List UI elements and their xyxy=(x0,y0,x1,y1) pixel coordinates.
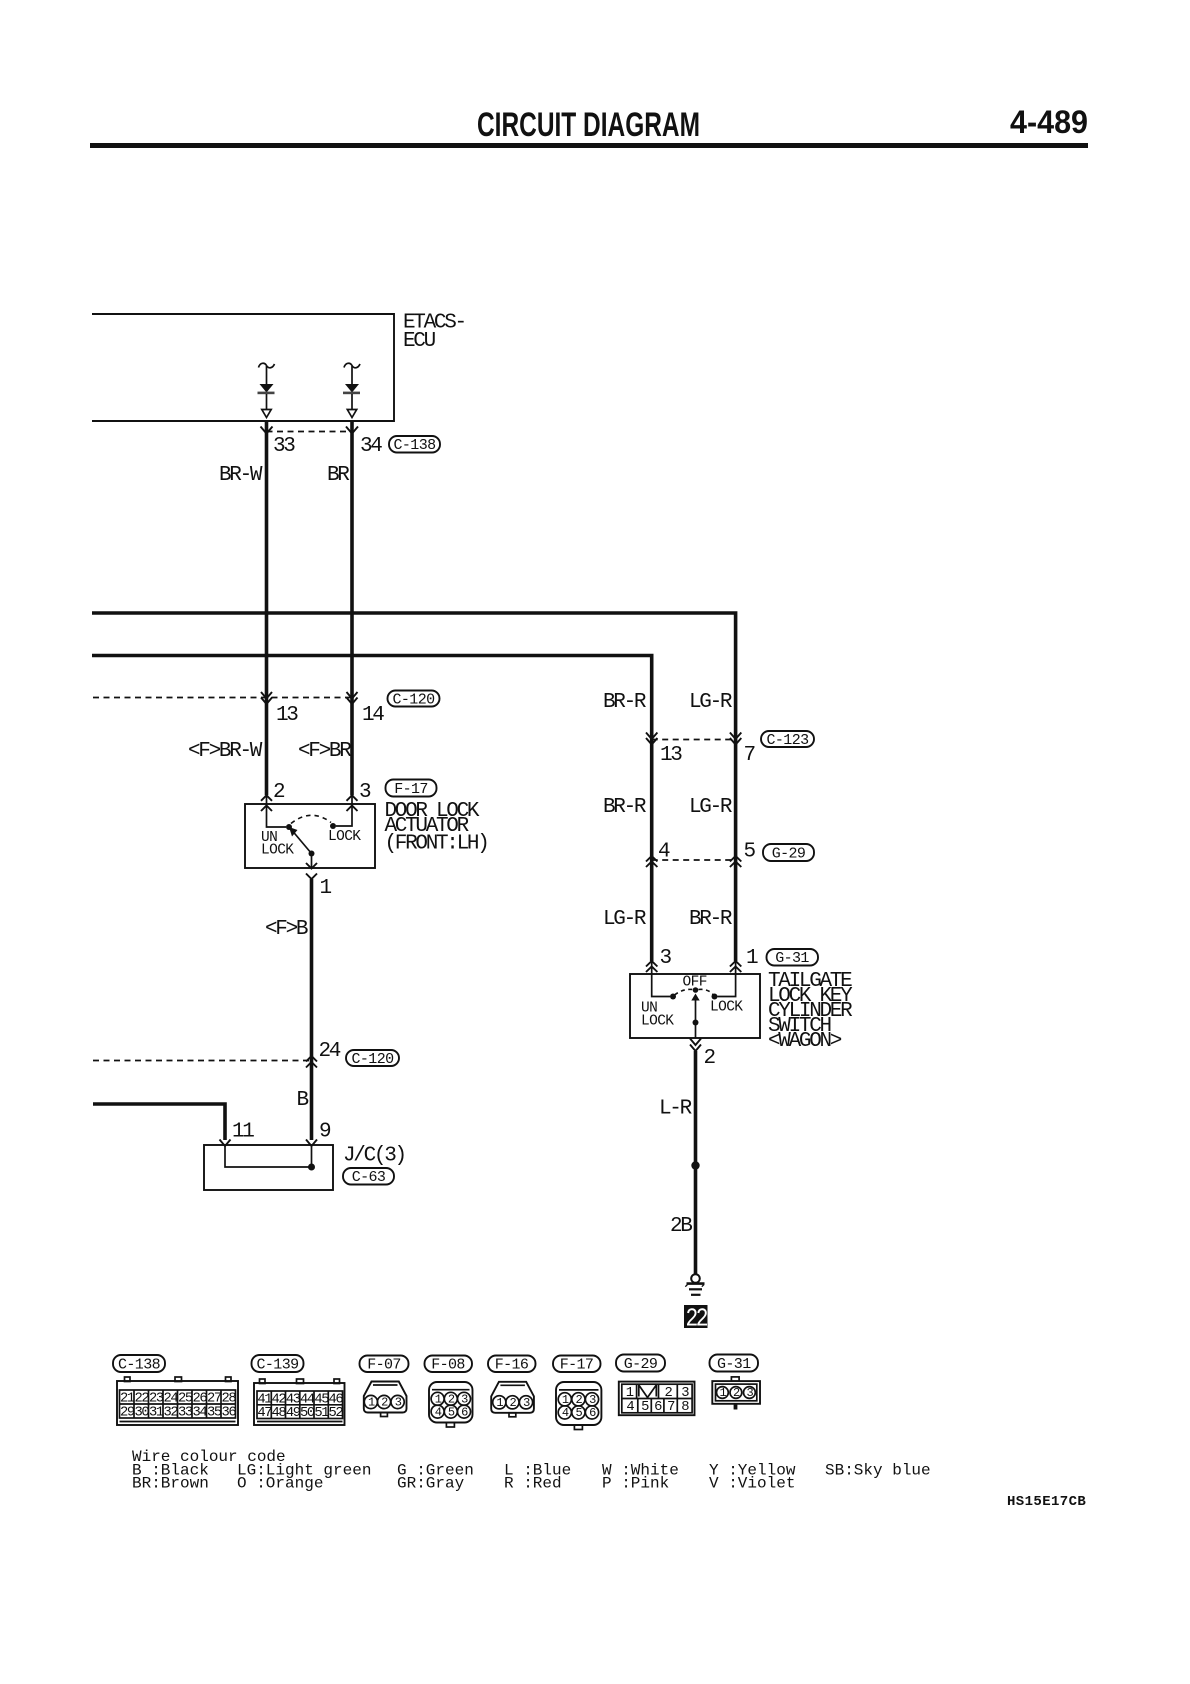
svg-text:G-29: G-29 xyxy=(624,1356,658,1373)
J/C internal wire pin9 xyxy=(311,1146,313,1167)
svg-text:2: 2 xyxy=(273,781,285,804)
svg-text:4: 4 xyxy=(626,1400,634,1415)
switch pin3 chevrons xyxy=(646,961,657,972)
ETACS-ECU box xyxy=(92,314,394,421)
svg-text:LOCK: LOCK xyxy=(641,1014,674,1030)
connector C-120 forks pin 14 xyxy=(347,692,358,704)
svg-text:J/C(3): J/C(3) xyxy=(343,1145,405,1168)
connector label F-07 xyxy=(360,1356,409,1374)
svg-text:1: 1 xyxy=(562,1393,569,1407)
svg-text:<F>B: <F>B xyxy=(265,918,308,941)
svg-text:46: 46 xyxy=(329,1392,344,1407)
svg-text:1: 1 xyxy=(746,947,758,970)
svg-text:11: 11 xyxy=(232,1121,254,1144)
connector label F-17 xyxy=(386,780,437,799)
actuator internal wire pin2 xyxy=(267,795,287,827)
svg-text:3: 3 xyxy=(660,947,672,970)
connector C-138 fork pin 34 xyxy=(346,427,358,434)
connector label C-139 xyxy=(252,1355,304,1374)
connector C-120 pin24 chevrons xyxy=(306,1056,317,1068)
svg-text:23: 23 xyxy=(149,1392,164,1407)
svg-text:3: 3 xyxy=(523,1396,530,1410)
svg-text:50: 50 xyxy=(300,1406,315,1421)
svg-text:C-138: C-138 xyxy=(393,437,436,454)
svg-text:SB:Sky blue: SB:Sky blue xyxy=(825,1462,931,1480)
tailgate lock key cylinder switch box G-31 xyxy=(630,974,760,1038)
svg-text:LG-R: LG-R xyxy=(689,691,733,714)
svg-text:1: 1 xyxy=(626,1386,634,1401)
connector F-16 pin view xyxy=(491,1382,534,1417)
svg-text:ECU: ECU xyxy=(403,330,436,353)
svg-text:1: 1 xyxy=(496,1396,503,1410)
switch lever pivot xyxy=(693,1020,699,1026)
svg-text:4: 4 xyxy=(435,1405,442,1419)
svg-text:2B: 2B xyxy=(670,1215,692,1238)
connector label C-120 (2) xyxy=(346,1050,399,1068)
svg-text:F-16: F-16 xyxy=(495,1357,529,1374)
switch contact LOCK xyxy=(712,994,718,1000)
ground feed wire into J/C pin 11 xyxy=(93,1104,225,1140)
switch internal wire pin1 xyxy=(718,961,736,997)
svg-text:3: 3 xyxy=(395,1396,402,1410)
svg-text:V :Violet: V :Violet xyxy=(709,1475,795,1493)
svg-text:(FRONT:LH): (FRONT:LH) xyxy=(385,833,488,856)
connector label C-63 xyxy=(343,1168,394,1186)
J/C internal junction dot xyxy=(308,1164,315,1171)
svg-text:G-31: G-31 xyxy=(775,950,809,967)
svg-text:1: 1 xyxy=(368,1396,375,1410)
connector C-138 fork pin 33 xyxy=(261,427,273,434)
svg-text:51: 51 xyxy=(314,1406,329,1421)
wire BR (pin34 down to actuator pin3) xyxy=(350,421,354,795)
svg-text:LG-R: LG-R xyxy=(689,796,733,819)
svg-text:BR-W: BR-W xyxy=(219,464,263,487)
svg-text:1: 1 xyxy=(320,877,332,900)
svg-text:3: 3 xyxy=(359,781,371,804)
svg-text:6: 6 xyxy=(654,1400,662,1415)
junction block J/C(3) box xyxy=(204,1145,333,1190)
svg-text:42: 42 xyxy=(272,1392,287,1407)
svg-text:GR:Gray: GR:Gray xyxy=(397,1475,465,1493)
connector label C-120 xyxy=(388,691,440,709)
wire B (actuator pin1 down to J/C) xyxy=(310,879,314,1140)
svg-text:F-07: F-07 xyxy=(367,1357,401,1374)
connector G-29 pin view xyxy=(619,1382,695,1416)
svg-text:4: 4 xyxy=(562,1406,569,1420)
switch pin2 internal wire xyxy=(695,1023,697,1039)
svg-text:3: 3 xyxy=(589,1393,596,1407)
svg-text:35: 35 xyxy=(207,1406,222,1421)
svg-text:BR-R: BR-R xyxy=(689,908,733,931)
svg-text:C-120: C-120 xyxy=(351,1051,394,1068)
connector F-08 pin view xyxy=(429,1382,473,1427)
J/C internal wire pin11 xyxy=(225,1146,312,1167)
door lock actuator box F-17 xyxy=(245,804,375,868)
diode D2 (inside ETACS-ECU, pin 34) xyxy=(343,363,360,417)
svg-text:41: 41 xyxy=(257,1392,272,1407)
actuator contact LOCK xyxy=(330,823,336,829)
svg-text:2: 2 xyxy=(704,1047,716,1070)
switch pin2 exit forks xyxy=(690,1039,701,1052)
wire BR-W (pin33 down to actuator pin2) xyxy=(265,421,269,795)
svg-text:<F>BR-W: <F>BR-W xyxy=(188,740,263,763)
svg-text:F-17: F-17 xyxy=(394,781,428,798)
svg-text:2: 2 xyxy=(381,1396,388,1410)
svg-text:2: 2 xyxy=(575,1393,582,1407)
connector label G-31 xyxy=(767,949,819,967)
connector C-123 forks pin 7 xyxy=(730,733,741,745)
connector F-07 pin view xyxy=(364,1382,407,1417)
svg-text:25: 25 xyxy=(178,1392,193,1407)
svg-text:G-29: G-29 xyxy=(772,846,806,863)
svg-text:13: 13 xyxy=(660,744,682,767)
svg-text:F-17: F-17 xyxy=(560,1357,594,1374)
actuator pin2 chevrons xyxy=(261,795,272,811)
C-120 pin24 dashed connector line xyxy=(93,1060,312,1062)
svg-text:5: 5 xyxy=(575,1406,582,1420)
connector C-139 pin view xyxy=(254,1379,345,1425)
svg-text:34: 34 xyxy=(360,435,382,458)
svg-text:24: 24 xyxy=(164,1392,179,1407)
switch contact UNLOCK xyxy=(670,994,676,1000)
svg-text:32: 32 xyxy=(164,1406,179,1421)
connector label G-29 (bottom row) xyxy=(616,1355,665,1374)
actuator lever pivot xyxy=(309,851,315,857)
svg-text:1: 1 xyxy=(719,1386,726,1400)
svg-text:7: 7 xyxy=(667,1400,675,1415)
svg-text:BR: BR xyxy=(327,464,350,487)
svg-text:4: 4 xyxy=(658,841,670,864)
connector label F-16 xyxy=(488,1356,536,1374)
svg-text:LOCK: LOCK xyxy=(328,829,361,845)
svg-text:7: 7 xyxy=(744,744,755,767)
ground symbol xyxy=(685,1274,704,1295)
svg-text:14: 14 xyxy=(362,704,384,727)
svg-text:C-138: C-138 xyxy=(118,1357,161,1374)
G-29 dashed connector line xyxy=(652,859,736,861)
connector F-17 pin view xyxy=(556,1382,601,1430)
connector C-123 forks pin 13 xyxy=(646,733,657,745)
svg-text:LOCK: LOCK xyxy=(261,843,294,859)
svg-text:49: 49 xyxy=(286,1406,301,1421)
switch dashed throw arcs xyxy=(675,989,693,995)
svg-text:28: 28 xyxy=(222,1392,237,1407)
svg-text:L-R: L-R xyxy=(659,1098,693,1121)
svg-text:C-123: C-123 xyxy=(766,732,809,749)
svg-text:5: 5 xyxy=(744,841,756,864)
actuator pin1 internal wire xyxy=(311,854,313,869)
connector G-29 chevrons pin 4 xyxy=(646,856,657,867)
svg-text:3: 3 xyxy=(746,1386,753,1400)
C-138 dashed connector line xyxy=(267,431,353,433)
svg-text:24: 24 xyxy=(319,1040,341,1063)
connector G-29 chevrons pin 5 xyxy=(730,856,741,867)
switch lever with arrow xyxy=(695,1000,697,1023)
J/C pin11 fork xyxy=(220,1140,231,1147)
svg-text:<WAGON>: <WAGON> xyxy=(768,1030,842,1053)
svg-text:47: 47 xyxy=(257,1406,272,1421)
actuator contact UNLOCK xyxy=(286,824,292,830)
svg-text:CIRCUIT DIAGRAM: CIRCUIT DIAGRAM xyxy=(477,106,700,144)
svg-text:9: 9 xyxy=(319,1121,331,1144)
actuator pin1 exit forks xyxy=(306,863,317,879)
svg-text:43: 43 xyxy=(286,1392,301,1407)
diode D1 (inside ETACS-ECU, pin 33) xyxy=(258,363,275,417)
svg-text:F-08: F-08 xyxy=(431,1357,465,1374)
svg-text:22: 22 xyxy=(685,1305,707,1335)
svg-text:<F>BR: <F>BR xyxy=(298,740,352,763)
svg-text:2: 2 xyxy=(733,1386,740,1400)
svg-text:B: B xyxy=(297,1089,309,1112)
actuator pin3 chevrons xyxy=(347,795,358,811)
svg-text:8: 8 xyxy=(681,1400,689,1415)
svg-text:BR-R: BR-R xyxy=(603,691,647,714)
svg-text:52: 52 xyxy=(329,1406,344,1421)
switch internal wire pin3 xyxy=(652,961,670,997)
actuator dashed throw arc xyxy=(291,815,331,823)
svg-text:21: 21 xyxy=(120,1392,135,1407)
svg-text:C-139: C-139 xyxy=(256,1357,298,1374)
svg-text:G-31: G-31 xyxy=(717,1356,751,1373)
bus wire lower (to BR-R drop) xyxy=(92,656,652,962)
switch pin1 chevrons xyxy=(730,961,741,972)
connector label C-123 xyxy=(761,731,814,749)
svg-text:22: 22 xyxy=(135,1392,150,1407)
svg-text:BR:Brown: BR:Brown xyxy=(132,1475,209,1493)
bus wire upper (to LG-R drop) xyxy=(92,613,736,961)
svg-text:6: 6 xyxy=(589,1406,596,1420)
connector label F-17 (bottom row) xyxy=(553,1356,601,1374)
connector label C-138 (bottom row) xyxy=(113,1355,165,1374)
actuator switch lever xyxy=(290,828,312,854)
svg-text:31: 31 xyxy=(149,1406,164,1421)
svg-text:5: 5 xyxy=(641,1400,649,1415)
connector label F-08 xyxy=(425,1356,473,1374)
connector C-120 forks pin 13 xyxy=(261,692,272,704)
svg-text:33: 33 xyxy=(178,1406,193,1421)
svg-text:6: 6 xyxy=(461,1405,468,1419)
svg-text:4-489: 4-489 xyxy=(1010,104,1088,140)
svg-text:36: 36 xyxy=(222,1406,237,1421)
svg-text:O :Orange: O :Orange xyxy=(237,1475,323,1493)
connector C-138 pin view xyxy=(117,1377,238,1425)
ground reference number 22 xyxy=(684,1305,708,1335)
actuator internal wire pin3 xyxy=(336,795,352,826)
connector label C-138 xyxy=(389,436,440,454)
wire colour code legend xyxy=(132,1448,931,1493)
svg-text:26: 26 xyxy=(193,1392,208,1407)
svg-text:27: 27 xyxy=(207,1392,222,1407)
svg-text:13: 13 xyxy=(276,704,298,727)
svg-text:R :Red: R :Red xyxy=(504,1475,562,1493)
svg-text:5: 5 xyxy=(448,1405,455,1419)
svg-text:48: 48 xyxy=(272,1406,287,1421)
C-120 dashed connector line xyxy=(93,697,352,699)
svg-text:2: 2 xyxy=(664,1386,672,1401)
splice junction dot xyxy=(691,1161,699,1169)
svg-text:45: 45 xyxy=(314,1392,329,1407)
svg-text:3: 3 xyxy=(681,1386,689,1401)
J/C pin9 fork xyxy=(306,1140,317,1147)
svg-text:HS15E17CB: HS15E17CB xyxy=(1007,1494,1086,1510)
header rule xyxy=(90,143,1088,148)
connector G-31 pin view xyxy=(712,1377,760,1410)
svg-text:2: 2 xyxy=(509,1396,516,1410)
C-123 dashed connector line xyxy=(652,739,736,741)
svg-text:34: 34 xyxy=(193,1406,208,1421)
svg-text:LG-R: LG-R xyxy=(603,908,647,931)
connector label G-31 (bottom row) xyxy=(710,1355,759,1374)
svg-text:LOCK: LOCK xyxy=(710,1000,743,1016)
svg-text:30: 30 xyxy=(135,1406,150,1421)
svg-text:33: 33 xyxy=(273,435,295,458)
svg-text:BR-R: BR-R xyxy=(603,796,647,819)
svg-text:C-120: C-120 xyxy=(392,692,435,709)
switch OFF contact dot xyxy=(693,987,699,993)
svg-text:29: 29 xyxy=(120,1406,135,1421)
svg-text:44: 44 xyxy=(300,1392,315,1407)
svg-text:C-63: C-63 xyxy=(352,1169,386,1186)
svg-text:P :Pink: P :Pink xyxy=(602,1475,669,1493)
wire L-R / 2B (switch pin2 to ground) xyxy=(694,1051,698,1274)
connector label G-29 xyxy=(763,844,814,863)
